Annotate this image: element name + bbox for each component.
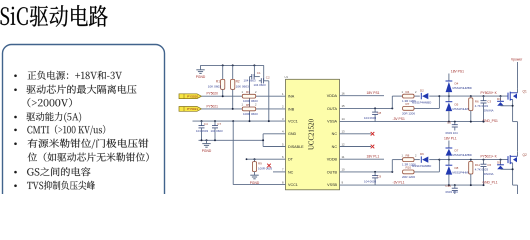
node: rail junctions [222, 64, 224, 66]
svg-text:MSS1P4HMBD: MSS1P4HMBD [412, 101, 431, 105]
svg-text:INB: INB [288, 107, 295, 111]
capacitor C6 (gate-source) [481, 160, 494, 186]
svg-text:Vpower: Vpower [511, 58, 523, 62]
svg-text:C3: C3 [487, 100, 491, 104]
svg-text:D7: D7 [455, 149, 459, 153]
diode D5 MSS1P4HMBD (clamp to VSS) [446, 96, 472, 122]
resistor R7 20R 1206 [402, 102, 415, 115]
svg-text:MSS1P4HMBD: MSS1P4HMBD [453, 153, 472, 157]
wire VCC1 rail to pin 3 [193, 120, 286, 122]
svg-text:PGND: PGND [196, 75, 206, 79]
port tag PY5021 [179, 107, 202, 112]
wire VSS rail -3V PL1 / GND_PL1 [340, 184, 485, 186]
svg-text:1: 1 [242, 90, 244, 94]
svg-text:NC: NC [332, 145, 338, 149]
svg-text:VSSB: VSSB [327, 183, 337, 187]
svg-text:C7: C7 [217, 122, 221, 126]
svg-text:DNI/NA: DNI/NA [484, 108, 494, 112]
svg-text:R1: R1 [216, 80, 220, 84]
svg-text:14: 14 [342, 117, 346, 121]
svg-text:1: 1 [282, 92, 284, 96]
svg-text:10: 10 [342, 168, 346, 172]
resistor R9 100R 0603 (DT) [252, 159, 272, 175]
svg-text:OUTA: OUTA [327, 107, 338, 111]
svg-text:DT: DT [288, 158, 294, 162]
svg-text:10K 0603: 10K 0603 [236, 84, 250, 88]
svg-text:C4: C4 [204, 122, 208, 126]
svg-text:D8: D8 [455, 166, 459, 170]
wire Q2 source down [517, 185, 519, 194]
svg-text:C10: C10 [445, 184, 451, 188]
svg-text:R7: R7 [406, 102, 410, 106]
capacitor C2 104 0603 [254, 65, 270, 121]
svg-text:OUTB: OUTB [327, 170, 338, 174]
wire gate net PY5021+ K [439, 159, 508, 161]
diode D2 MSS1P4HMBD [412, 89, 431, 105]
svg-text:100R 0603: 100R 0603 [243, 112, 258, 116]
svg-text:INA: INA [288, 95, 295, 99]
svg-text:GND: GND [288, 132, 297, 136]
svg-text:PY5020+ K: PY5020+ K [481, 91, 498, 95]
svg-text:12: 12 [342, 142, 346, 146]
wire pin4 GND + pin5 DISABLE tie [263, 133, 285, 135]
capacitor C1 104 0603 [244, 65, 261, 121]
diode D7 MSS1P4HMBD (clamp to 18V) [446, 141, 472, 160]
diode D6 MSS1P4HMBD [412, 152, 431, 168]
resistor R6 4.7K 0603 (gate-source) [469, 96, 489, 122]
capacitor C9 104 0603 (out bypass) [364, 172, 382, 185]
svg-text:VCC1: VCC1 [288, 183, 298, 187]
svg-text:Q1: Q1 [523, 90, 527, 94]
svg-text:8: 8 [282, 180, 284, 184]
svg-text:NC: NC [288, 170, 294, 174]
svg-text:5: 5 [282, 142, 284, 146]
NC pins 13/12 with no-connect marks [340, 133, 372, 135]
svg-text:GND_PL1: GND_PL1 [483, 181, 498, 185]
svg-text:R8: R8 [406, 153, 410, 157]
svg-text:R5: R5 [246, 103, 250, 107]
svg-text:D4: D4 [455, 82, 459, 86]
svg-text:2: 2 [255, 90, 257, 94]
capacitor C7 104 0603 [211, 121, 223, 140]
svg-text:D5: D5 [455, 103, 459, 107]
svg-text:U1: U1 [285, 75, 289, 79]
svg-text:4.7K 0603: 4.7K 0603 [475, 104, 489, 108]
svg-text:2: 2 [415, 90, 417, 94]
resistor R1 10K 0603 [208, 65, 225, 96]
svg-text:R2: R2 [236, 80, 240, 84]
svg-text:D2: D2 [420, 89, 424, 93]
svg-text:13: 13 [342, 130, 346, 134]
svg-text:D6: D6 [420, 152, 424, 156]
svg-text:R4: R4 [406, 90, 410, 94]
svg-text:Q2: Q2 [523, 153, 527, 157]
svg-text:R10: R10 [406, 166, 412, 170]
svg-text:104 0603: 104 0603 [196, 129, 208, 133]
resistor R10 20R 1206 [402, 166, 415, 179]
resistor R11 4.7K 0603 (gate-source) [469, 160, 489, 186]
svg-text:18V PL1: 18V PL1 [444, 136, 457, 140]
svg-text:VCC1: VCC1 [288, 120, 298, 124]
svg-text:104 0603: 104 0603 [364, 116, 376, 120]
svg-text:-3V PL1: -3V PL1 [393, 181, 405, 185]
port tag PY5020 [179, 94, 202, 99]
svg-text:GND_PS1: GND_PS1 [483, 119, 499, 123]
svg-text:15: 15 [342, 104, 346, 108]
ground PGND (top-left) [196, 65, 206, 79]
svg-text:R6: R6 [475, 99, 479, 103]
svg-text:11: 11 [342, 155, 345, 159]
resistor R5 100R 0603 [242, 103, 259, 116]
svg-text:VDDA: VDDA [327, 94, 338, 98]
wire VDDA 18V PS1 [340, 95, 385, 97]
svg-text:D9: D9 [497, 161, 501, 165]
svg-text:20R 1206: 20R 1206 [402, 175, 415, 179]
transistor Q1 SiC MOSFET [508, 88, 527, 122]
svg-text:R9: R9 [258, 162, 262, 166]
svg-text:7: 7 [282, 168, 284, 172]
wire gate net PY5020+ K [439, 95, 508, 97]
svg-text:-3V PS1: -3V PS1 [393, 117, 405, 121]
wire VDDB 18V PL1 [340, 158, 385, 160]
title "SiC驱动电路" [1, 5, 108, 27]
resistor R2 10K 0603 [231, 65, 250, 109]
svg-text:0603 104: 0603 104 [446, 131, 458, 135]
svg-text:DNI/NA: DNI/NA [484, 172, 494, 176]
no-fit mark near R9 [273, 171, 286, 173]
TVS diode D3 SMDA05 [497, 96, 513, 106]
diode D4 MSS1P4HMBD (clamp to 18V) [446, 74, 472, 97]
svg-text:2: 2 [415, 154, 417, 158]
svg-text:PGND: PGND [202, 149, 212, 153]
svg-text:C2: C2 [266, 75, 270, 79]
svg-text:PY5020: PY5020 [207, 92, 219, 96]
svg-text:16: 16 [342, 92, 346, 96]
svg-text:PGND: PGND [250, 181, 260, 185]
svg-text:PY5020: PY5020 [187, 95, 198, 99]
svg-text:1: 1 [402, 154, 404, 158]
wire gate branch split [391, 160, 393, 172]
svg-text:PY5021+ K: PY5021+ K [481, 154, 498, 158]
capacitor C5 0603 104 (below rail) [446, 120, 458, 135]
svg-text:104 0603: 104 0603 [364, 179, 376, 183]
diode D8 MSS1P4HMBD (clamp to VSS) [446, 160, 472, 186]
wire INA with net label PY5020 [202, 92, 286, 98]
svg-text:PY5021: PY5021 [207, 104, 219, 108]
svg-text:2: 2 [282, 105, 284, 109]
svg-text:C5: C5 [447, 120, 451, 124]
svg-text:C1: C1 [257, 71, 261, 75]
wire Q1 source rail to Q2 drain [517, 122, 519, 152]
svg-text:10K 0603: 10K 0603 [208, 84, 222, 88]
wire DT pin 6 [247, 158, 286, 160]
svg-text:MSS1P4HMBD: MSS1P4HMBD [412, 164, 431, 168]
svg-text:9: 9 [342, 180, 344, 184]
svg-text:3: 3 [282, 117, 284, 121]
resistor R8 1.3R 1206 [402, 153, 418, 166]
svg-text:NC: NC [332, 132, 338, 136]
wire OUTA [340, 107, 393, 109]
wire OUTB [340, 171, 393, 173]
svg-text:R3: R3 [246, 90, 250, 94]
svg-text:MSS1P4HMBD: MSS1P4HMBD [453, 86, 472, 90]
svg-text:18V PS1: 18V PS1 [367, 91, 380, 95]
svg-text:104 0603: 104 0603 [211, 129, 223, 133]
svg-text:D3: D3 [497, 97, 501, 101]
capacitor C10 0603 104 (below rail) [445, 184, 458, 194]
capacitor C3 (gate-source) [481, 96, 494, 122]
svg-text:18V PS1: 18V PS1 [451, 69, 464, 73]
TVS diode D9 SMDA05 [497, 160, 513, 170]
svg-text:104 0603: 104 0603 [254, 83, 266, 87]
resistor R3 100R 0603 [242, 90, 259, 103]
capacitor C4 104 0603 [196, 121, 208, 140]
wire VCC1 drop to pin 8 [232, 121, 234, 185]
svg-text:UCC21520: UCC21520 [309, 118, 316, 150]
wire: top PGND rail [201, 64, 264, 66]
resistor R4 1.3R 1206 [402, 90, 418, 103]
svg-text:PY5021: PY5021 [187, 107, 198, 111]
svg-text:C8: C8 [377, 111, 381, 115]
svg-text:C9: C9 [377, 174, 381, 178]
svg-text:18V PL1: 18V PL1 [367, 155, 380, 159]
ground PGND (under C4/C7) [202, 140, 212, 153]
svg-text:R11: R11 [475, 163, 481, 167]
bullet list text [14, 71, 148, 190]
wire VSS rail -3V PS1 / GND_PS1 [340, 121, 485, 123]
wire gate branch split [391, 96, 393, 108]
svg-text:0603 104: 0603 104 [446, 190, 458, 194]
transistor Q2 SiC MOSFET [508, 152, 527, 186]
svg-text:20R 1206: 20R 1206 [402, 112, 415, 116]
capacitor C8 104 0603 (out bypass) [364, 108, 382, 121]
svg-text:4: 4 [282, 130, 284, 134]
ground PGND (DT) [250, 175, 260, 185]
svg-text:DISABLE: DISABLE [288, 145, 304, 149]
bullet list box [3, 45, 165, 205]
svg-text:C6: C6 [487, 163, 491, 167]
wire INB with net label PY5021 [202, 104, 286, 110]
wire GND/DISABLE net [199, 139, 264, 141]
svg-text:1: 1 [402, 90, 404, 94]
svg-text:6: 6 [282, 155, 284, 159]
svg-text:VSSA: VSSA [327, 120, 337, 124]
svg-text:VDDB: VDDB [327, 158, 338, 162]
svg-text:4.7K 0603: 4.7K 0603 [475, 168, 489, 172]
